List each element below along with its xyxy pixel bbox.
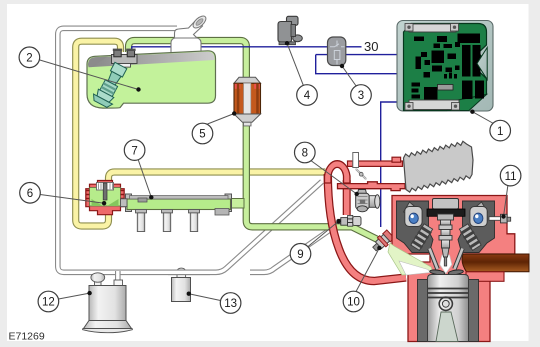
cylinder head red block bbox=[392, 196, 515, 342]
leader line 13 bbox=[187, 292, 221, 301]
svg-text:8: 8 bbox=[302, 148, 308, 160]
PCM chips bbox=[412, 34, 485, 100]
throttle body upper wall bbox=[348, 161, 353, 166]
svg-text:30: 30 bbox=[364, 39, 378, 54]
callout 5 bbox=[192, 123, 213, 144]
callout 6 bbox=[20, 183, 41, 204]
camshaft cavity left bbox=[397, 201, 434, 253]
fuel rail (7) bbox=[126, 194, 232, 215]
fuel injector rail stub 2 bbox=[162, 210, 173, 232]
svg-text:11: 11 bbox=[505, 171, 517, 183]
hose clamp screw bbox=[356, 169, 367, 180]
svg-text:5: 5 bbox=[199, 129, 205, 141]
leader line 5 bbox=[208, 111, 237, 124]
leader line 2 bbox=[40, 60, 141, 92]
callout 3 bbox=[351, 85, 372, 106]
fuel injector rail stub 3 bbox=[189, 210, 200, 232]
svg-text:1: 1 bbox=[497, 126, 503, 138]
green stub rail to vertical supply bbox=[228, 199, 244, 209]
callout 12 bbox=[38, 291, 59, 312]
camshaft position sensor (11 target) bbox=[489, 214, 511, 223]
fuel pressure sensor (8) bbox=[356, 190, 380, 212]
svg-text:10: 10 bbox=[347, 297, 360, 309]
green supply pipe: tank to fuel filter bbox=[129, 41, 247, 78]
cylinder liner left bbox=[418, 280, 428, 342]
wire blue: loop down to PCM second pin bbox=[316, 55, 397, 74]
fuel pump module body bbox=[91, 60, 130, 109]
inertia fuel shutoff switch (4) bbox=[278, 16, 302, 44]
leader line 8 bbox=[311, 161, 359, 197]
leader line 10 bbox=[356, 246, 382, 293]
wire EVAP vent pipe main loop (filler to left side to canisters) bbox=[58, 28, 322, 272]
callout 9 bbox=[290, 244, 311, 265]
fuel filter (5) bbox=[234, 77, 261, 126]
spark plug tip pocket bbox=[440, 255, 452, 274]
svg-text:13: 13 bbox=[224, 298, 237, 310]
cam follower right bbox=[470, 202, 488, 227]
throttle body lower wall bbox=[338, 182, 406, 191]
callout 7 bbox=[124, 140, 145, 161]
fuel injector rail stub 1 bbox=[136, 210, 147, 232]
leader line 6 bbox=[40, 195, 106, 206]
svg-text:12: 12 bbox=[42, 297, 55, 309]
leader line 3 bbox=[340, 64, 357, 87]
callout 4 bbox=[297, 85, 318, 106]
PCM mounting screw bottom-right bbox=[452, 103, 460, 111]
PCM mounting screw bottom-left bbox=[405, 103, 413, 111]
fuel pressure regulator (6) bbox=[86, 181, 127, 215]
spray cone white part bbox=[399, 261, 430, 275]
EVAP carbon canister (12) bbox=[83, 273, 133, 333]
fuel tank body bbox=[87, 51, 216, 108]
camshaft cavity right bbox=[458, 201, 495, 253]
intake port brown tube bbox=[462, 254, 529, 272]
callout 13 bbox=[220, 293, 241, 314]
PCM plate notch wedge bbox=[477, 48, 487, 80]
exhaust valve stem and head bbox=[448, 249, 464, 276]
air intake corrugated duct bbox=[404, 141, 474, 192]
callout 2 bbox=[19, 47, 40, 68]
green supply pipe: filter down to rail junction and injector feed bbox=[246, 121, 377, 240]
fuel injector (10) bbox=[370, 229, 395, 253]
svg-text:2: 2 bbox=[26, 53, 32, 65]
fuel pump module flange bbox=[112, 49, 138, 68]
valve spring left bbox=[410, 223, 433, 251]
PCM board bottom-right diagonal edge bbox=[447, 95, 487, 111]
callout 8 bbox=[295, 142, 316, 163]
vacuum port stub on manifold bbox=[353, 153, 359, 168]
svg-text:6: 6 bbox=[27, 188, 33, 200]
leader line 11 bbox=[501, 185, 508, 219]
spray cone pale green bbox=[388, 243, 433, 275]
piston bbox=[428, 275, 469, 342]
fuel pump relay (3) bbox=[328, 37, 346, 66]
wire blue: tank sender to inertia switch to relay bbox=[132, 47, 328, 51]
manifold arch elbow bbox=[325, 161, 351, 183]
cam follower left bbox=[404, 202, 423, 227]
wire blue: relay row to PCM bbox=[316, 54, 397, 56]
fuel tank top band (3d face) bbox=[88, 52, 214, 68]
PCM mounting screw top-left bbox=[405, 24, 413, 32]
svg-text:4: 4 bbox=[304, 90, 311, 102]
PCM flat ribbon component bbox=[438, 85, 454, 91]
EVAP dust separator (13) bbox=[172, 268, 191, 301]
yellow return pipe: tank to left loop to regulator bottom bbox=[76, 41, 121, 226]
PCM mounting screw top-right bbox=[451, 24, 459, 32]
wire canister 12 branch stub bbox=[115, 271, 121, 282]
svg-text:3: 3 bbox=[358, 90, 364, 102]
PCM top connector bracket bbox=[409, 24, 456, 32]
intake valve stem and head bbox=[429, 249, 445, 276]
leader line 12 bbox=[59, 291, 92, 299]
svg-text:9: 9 bbox=[297, 249, 303, 261]
svg-text:7: 7 bbox=[131, 145, 137, 157]
wire EVAP purge pipe (canister 13 to purge valve) bbox=[250, 224, 338, 272]
wire EVAP pipe overlay over stub bbox=[168, 269, 210, 275]
EVAP purge valve (9) bbox=[338, 215, 361, 226]
fuel filler neck bbox=[171, 14, 208, 59]
callout 1 bbox=[490, 120, 511, 141]
PCM circuit board (1) bbox=[404, 24, 487, 111]
PCM mounting plate bbox=[397, 21, 493, 112]
ignition coil over spark plug bbox=[427, 199, 465, 267]
callout 11 bbox=[500, 165, 521, 186]
intake runner red tube (manifold to intake port) bbox=[328, 174, 406, 281]
cylinder liner right bbox=[469, 280, 479, 342]
svg-text:E71269: E71269 bbox=[9, 331, 45, 343]
wire blue: PCM to fuel injector bbox=[381, 102, 397, 227]
callout 10 bbox=[343, 291, 364, 312]
leader line 4 bbox=[285, 41, 304, 86]
yellow return pipe: regulator top to manifold bbox=[109, 172, 326, 184]
PCM bottom connector bracket bbox=[409, 100, 459, 110]
manifold branch tube to purge valve bbox=[343, 180, 351, 215]
leader line 1 bbox=[470, 110, 493, 124]
leader line 7 bbox=[138, 160, 153, 200]
valve spring right bbox=[459, 223, 482, 251]
leader line 9 bbox=[308, 219, 341, 247]
wire blue: relay to terminal 30 label bbox=[346, 46, 362, 48]
red band below brown tube bbox=[466, 272, 504, 282]
